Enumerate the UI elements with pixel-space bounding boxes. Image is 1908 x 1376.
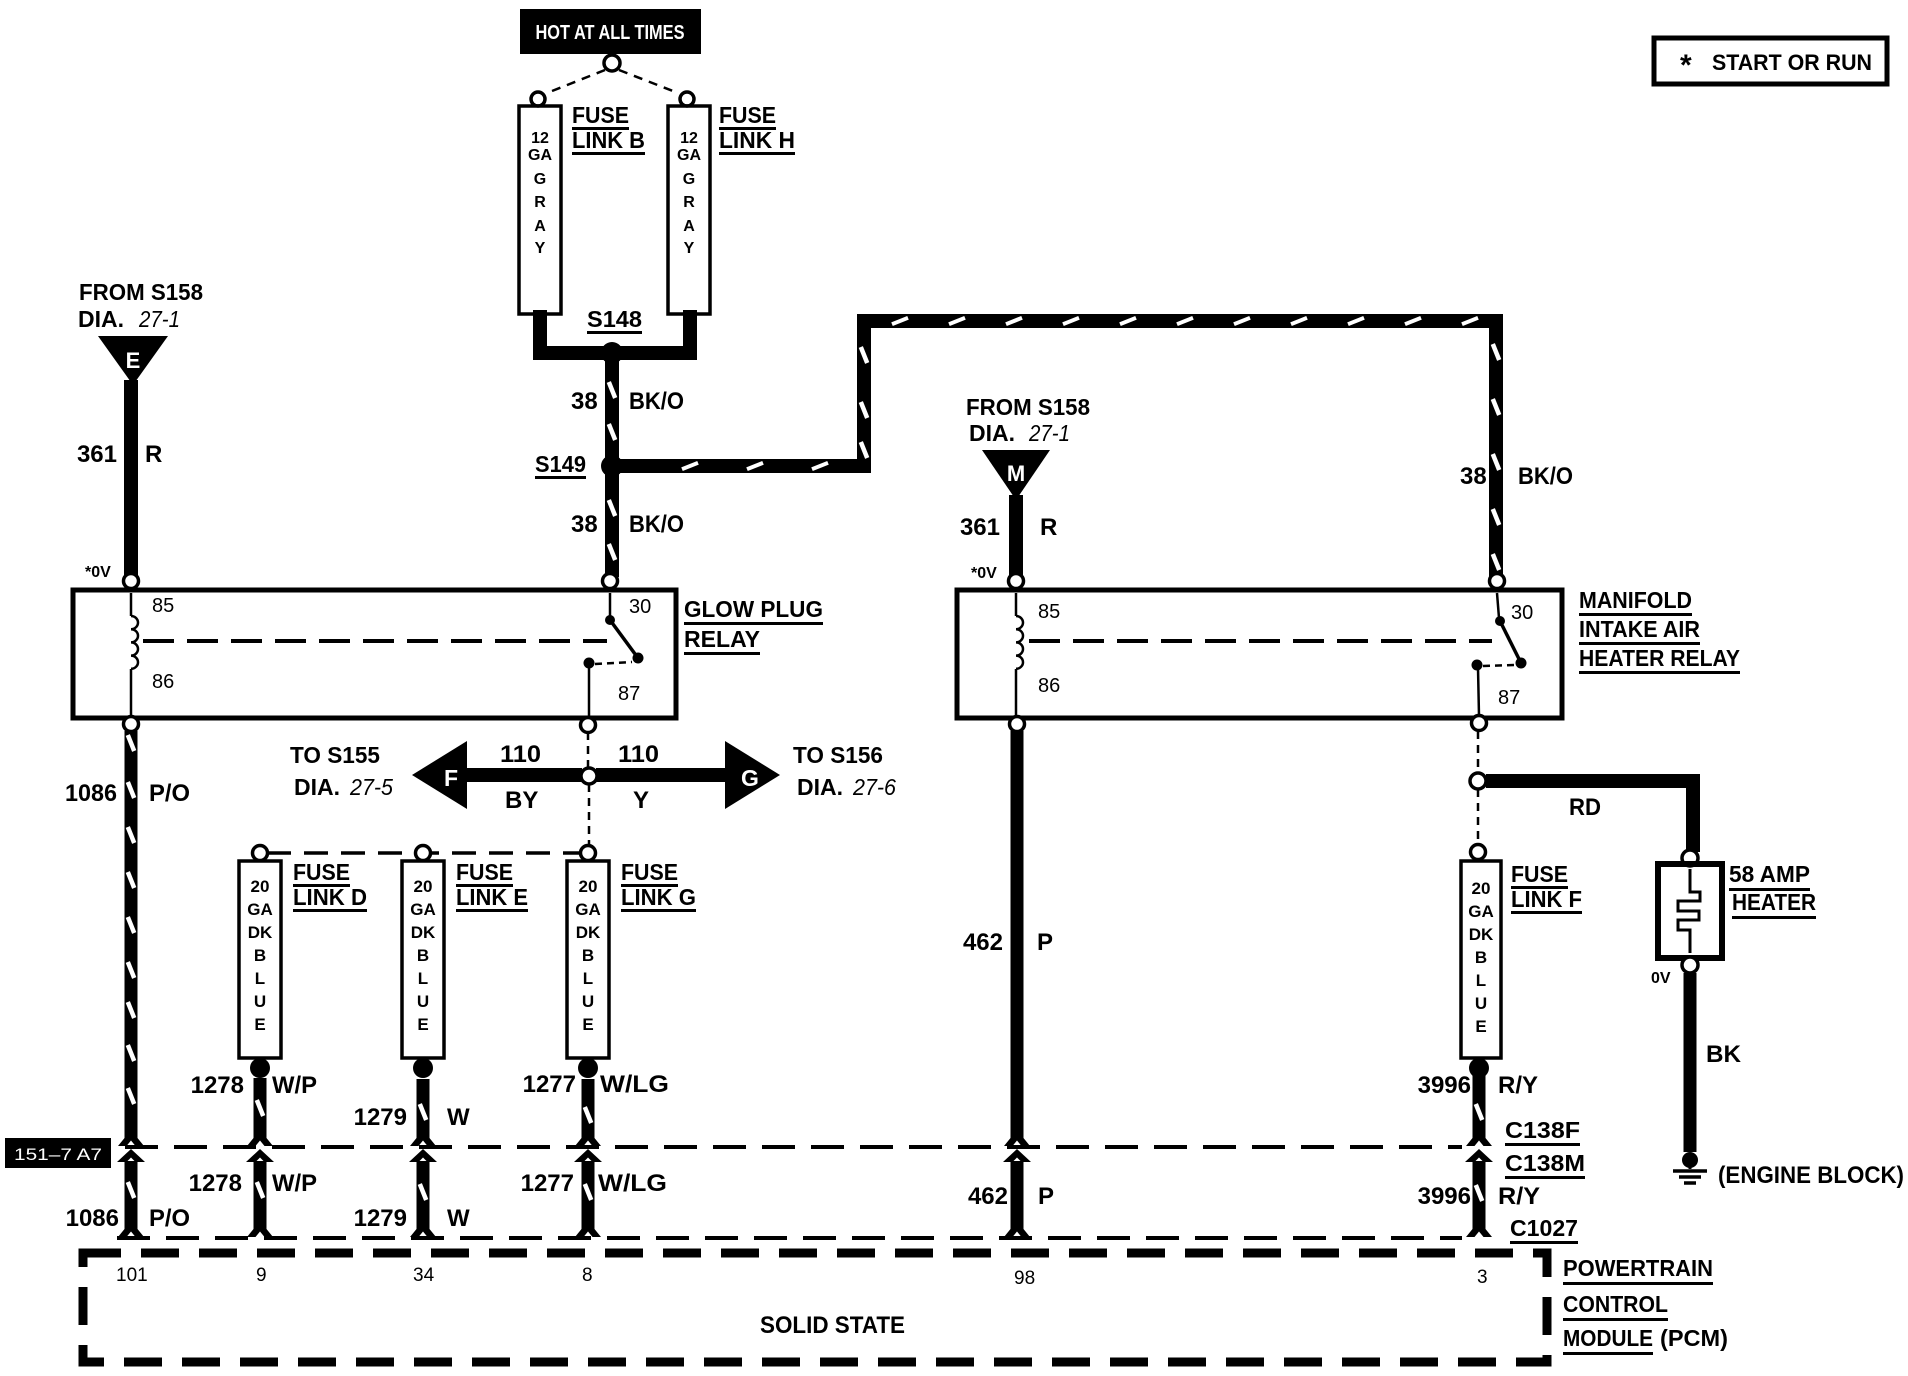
svg-text:U: U (254, 992, 266, 1011)
svg-text:START OR RUN: START OR RUN (1712, 50, 1872, 75)
svg-text:HOT AT ALL TIMES: HOT AT ALL TIMES (536, 22, 685, 44)
svg-text:R: R (534, 194, 546, 211)
svg-text:BK/O: BK/O (629, 511, 684, 538)
svg-text:86: 86 (1038, 675, 1060, 697)
svg-text:C138M: C138M (1505, 1150, 1585, 1176)
svg-text:A: A (534, 218, 546, 235)
svg-text:HEATER RELAY: HEATER RELAY (1579, 645, 1740, 671)
svg-text:BK/O: BK/O (629, 388, 684, 415)
svg-text:30: 30 (1511, 602, 1533, 624)
svg-text:LINK E: LINK E (456, 884, 528, 910)
svg-text:R/Y: R/Y (1498, 1183, 1540, 1210)
svg-text:GA: GA (575, 900, 601, 919)
svg-text:20: 20 (579, 877, 598, 896)
svg-text:E: E (1475, 1017, 1486, 1036)
svg-text:1279: 1279 (354, 1104, 407, 1131)
svg-text:L: L (255, 969, 265, 988)
svg-text:12: 12 (680, 130, 698, 147)
svg-text:FUSE: FUSE (1511, 861, 1568, 887)
svg-text:MODULE: MODULE (1563, 1325, 1653, 1351)
svg-text:BK: BK (1706, 1041, 1742, 1068)
svg-text:SOLID STATE: SOLID STATE (760, 1312, 905, 1339)
svg-text:20: 20 (414, 877, 433, 896)
svg-text:L: L (1476, 971, 1486, 990)
svg-text:TO S156: TO S156 (793, 742, 883, 768)
svg-text:U: U (1475, 994, 1487, 1013)
svg-text:1277: 1277 (523, 1071, 576, 1098)
svg-text:1086: 1086 (65, 780, 117, 807)
svg-text:B: B (582, 946, 594, 965)
svg-text:DIA.: DIA. (294, 774, 340, 800)
svg-text:INTAKE AIR: INTAKE AIR (1579, 616, 1700, 642)
svg-text:30: 30 (629, 596, 651, 618)
svg-text:W/P: W/P (272, 1072, 317, 1099)
svg-text:FROM S158: FROM S158 (966, 394, 1090, 420)
svg-text:GA: GA (528, 147, 552, 164)
svg-text:85: 85 (1038, 601, 1060, 623)
svg-text:1278: 1278 (189, 1170, 242, 1197)
svg-text:86: 86 (152, 671, 174, 693)
svg-text:12: 12 (531, 130, 549, 147)
svg-text:DK: DK (1469, 925, 1494, 944)
svg-text:M: M (1007, 461, 1025, 486)
svg-text:R: R (145, 441, 162, 468)
svg-text:LINK F: LINK F (1511, 886, 1582, 912)
svg-text:*: * (1680, 49, 1692, 82)
svg-text:E: E (126, 348, 141, 373)
svg-text:462: 462 (963, 929, 1003, 956)
svg-text:27-1: 27-1 (1028, 420, 1070, 446)
svg-text:GA: GA (1468, 902, 1494, 921)
svg-text:P/O: P/O (149, 780, 190, 807)
svg-text:GA: GA (247, 900, 273, 919)
svg-text:110: 110 (500, 741, 541, 768)
svg-text:GA: GA (410, 900, 436, 919)
svg-text:20: 20 (251, 877, 270, 896)
svg-text:G: G (534, 171, 546, 188)
svg-text:85: 85 (152, 595, 174, 617)
svg-text:FUSE: FUSE (293, 859, 350, 885)
svg-text:LINK D: LINK D (293, 884, 367, 910)
svg-text:87: 87 (618, 683, 640, 705)
svg-text:RD: RD (1569, 794, 1601, 821)
svg-text:361: 361 (77, 441, 117, 468)
svg-text:87: 87 (1498, 687, 1520, 709)
svg-text:G: G (741, 765, 759, 791)
svg-text:FUSE: FUSE (621, 859, 678, 885)
svg-text:110: 110 (618, 741, 659, 768)
svg-text:B: B (1475, 948, 1487, 967)
svg-text:R/Y: R/Y (1498, 1072, 1538, 1099)
svg-text:POWERTRAIN: POWERTRAIN (1563, 1255, 1713, 1281)
svg-text:P: P (1038, 1183, 1054, 1210)
svg-text:U: U (582, 992, 594, 1011)
svg-text:U: U (417, 992, 429, 1011)
svg-text:38: 38 (1460, 463, 1487, 490)
svg-text:W/P: W/P (272, 1170, 317, 1197)
svg-text:3996: 3996 (1418, 1072, 1471, 1099)
svg-text:38: 38 (571, 511, 598, 538)
svg-text:E: E (417, 1015, 428, 1034)
svg-text:9: 9 (256, 1265, 267, 1286)
svg-text:S148: S148 (587, 306, 642, 332)
svg-text:W: W (447, 1104, 470, 1131)
svg-text:FUSE: FUSE (456, 859, 513, 885)
svg-text:F: F (444, 765, 458, 791)
svg-text:GLOW PLUG: GLOW PLUG (684, 596, 823, 622)
svg-text:DK: DK (248, 923, 273, 942)
svg-text:E: E (582, 1015, 593, 1034)
svg-text:DIA.: DIA. (797, 774, 843, 800)
svg-text:0V: 0V (1651, 970, 1671, 987)
svg-text:LINK G: LINK G (621, 884, 696, 910)
svg-text:DIA.: DIA. (78, 306, 124, 332)
svg-text:101: 101 (116, 1265, 148, 1286)
svg-text:27-5: 27-5 (349, 774, 393, 800)
svg-text:1278: 1278 (191, 1072, 244, 1099)
svg-text:BK/O: BK/O (1518, 463, 1573, 490)
svg-text:HEATER: HEATER (1732, 889, 1816, 915)
svg-text:38: 38 (571, 388, 598, 415)
svg-text:G: G (683, 171, 695, 188)
svg-text:L: L (583, 969, 593, 988)
svg-text:MANIFOLD: MANIFOLD (1579, 587, 1692, 613)
svg-text:B: B (417, 946, 429, 965)
svg-text:E: E (254, 1015, 265, 1034)
svg-text:Y: Y (633, 787, 649, 814)
svg-text:RELAY: RELAY (684, 626, 760, 652)
svg-text:Y: Y (535, 240, 546, 257)
svg-text:C1027: C1027 (1510, 1215, 1578, 1241)
svg-text:1277: 1277 (521, 1170, 574, 1197)
svg-text:FROM S158: FROM S158 (79, 279, 203, 305)
svg-text:CONTROL: CONTROL (1563, 1291, 1668, 1317)
svg-text:DK: DK (576, 923, 601, 942)
svg-text:R: R (1040, 514, 1057, 541)
svg-text:W: W (447, 1205, 470, 1232)
svg-text:P/O: P/O (149, 1205, 190, 1232)
svg-text:*0V: *0V (971, 565, 997, 582)
svg-text:W/LG: W/LG (598, 1170, 667, 1197)
svg-text:1279: 1279 (354, 1205, 407, 1232)
svg-text:*0V: *0V (85, 564, 111, 581)
svg-text:A: A (683, 218, 695, 235)
svg-text:L: L (418, 969, 428, 988)
svg-text:B: B (254, 946, 266, 965)
svg-text:27-6: 27-6 (852, 774, 896, 800)
svg-text:TO S155: TO S155 (290, 742, 380, 768)
svg-text:3996: 3996 (1418, 1183, 1471, 1210)
svg-text:3: 3 (1477, 1267, 1488, 1288)
svg-text:W/LG: W/LG (600, 1071, 669, 1098)
svg-text:151–7 A7: 151–7 A7 (14, 1145, 102, 1164)
svg-text:DK: DK (411, 923, 436, 942)
svg-text:8: 8 (582, 1265, 593, 1286)
svg-text:(ENGINE BLOCK): (ENGINE BLOCK) (1718, 1162, 1904, 1189)
svg-text:R: R (683, 194, 695, 211)
svg-text:(PCM): (PCM) (1660, 1325, 1728, 1351)
svg-text:1086: 1086 (66, 1205, 119, 1232)
svg-text:34: 34 (413, 1265, 435, 1286)
svg-text:20: 20 (1472, 879, 1491, 898)
svg-text:58 AMP: 58 AMP (1729, 861, 1810, 887)
svg-text:S149: S149 (535, 451, 586, 477)
svg-text:361: 361 (960, 514, 1000, 541)
svg-text:BY: BY (505, 787, 538, 814)
svg-text:LINK H: LINK H (719, 127, 795, 153)
svg-text:FUSE: FUSE (719, 102, 776, 128)
svg-text:P: P (1037, 929, 1053, 956)
svg-text:27-1: 27-1 (138, 306, 180, 332)
svg-text:462: 462 (968, 1183, 1008, 1210)
svg-text:DIA.: DIA. (969, 420, 1015, 446)
svg-text:C138F: C138F (1505, 1117, 1580, 1143)
svg-text:FUSE: FUSE (572, 102, 629, 128)
svg-text:Y: Y (684, 240, 695, 257)
svg-text:GA: GA (677, 147, 701, 164)
svg-text:LINK B: LINK B (572, 127, 645, 153)
svg-text:98: 98 (1014, 1268, 1035, 1289)
